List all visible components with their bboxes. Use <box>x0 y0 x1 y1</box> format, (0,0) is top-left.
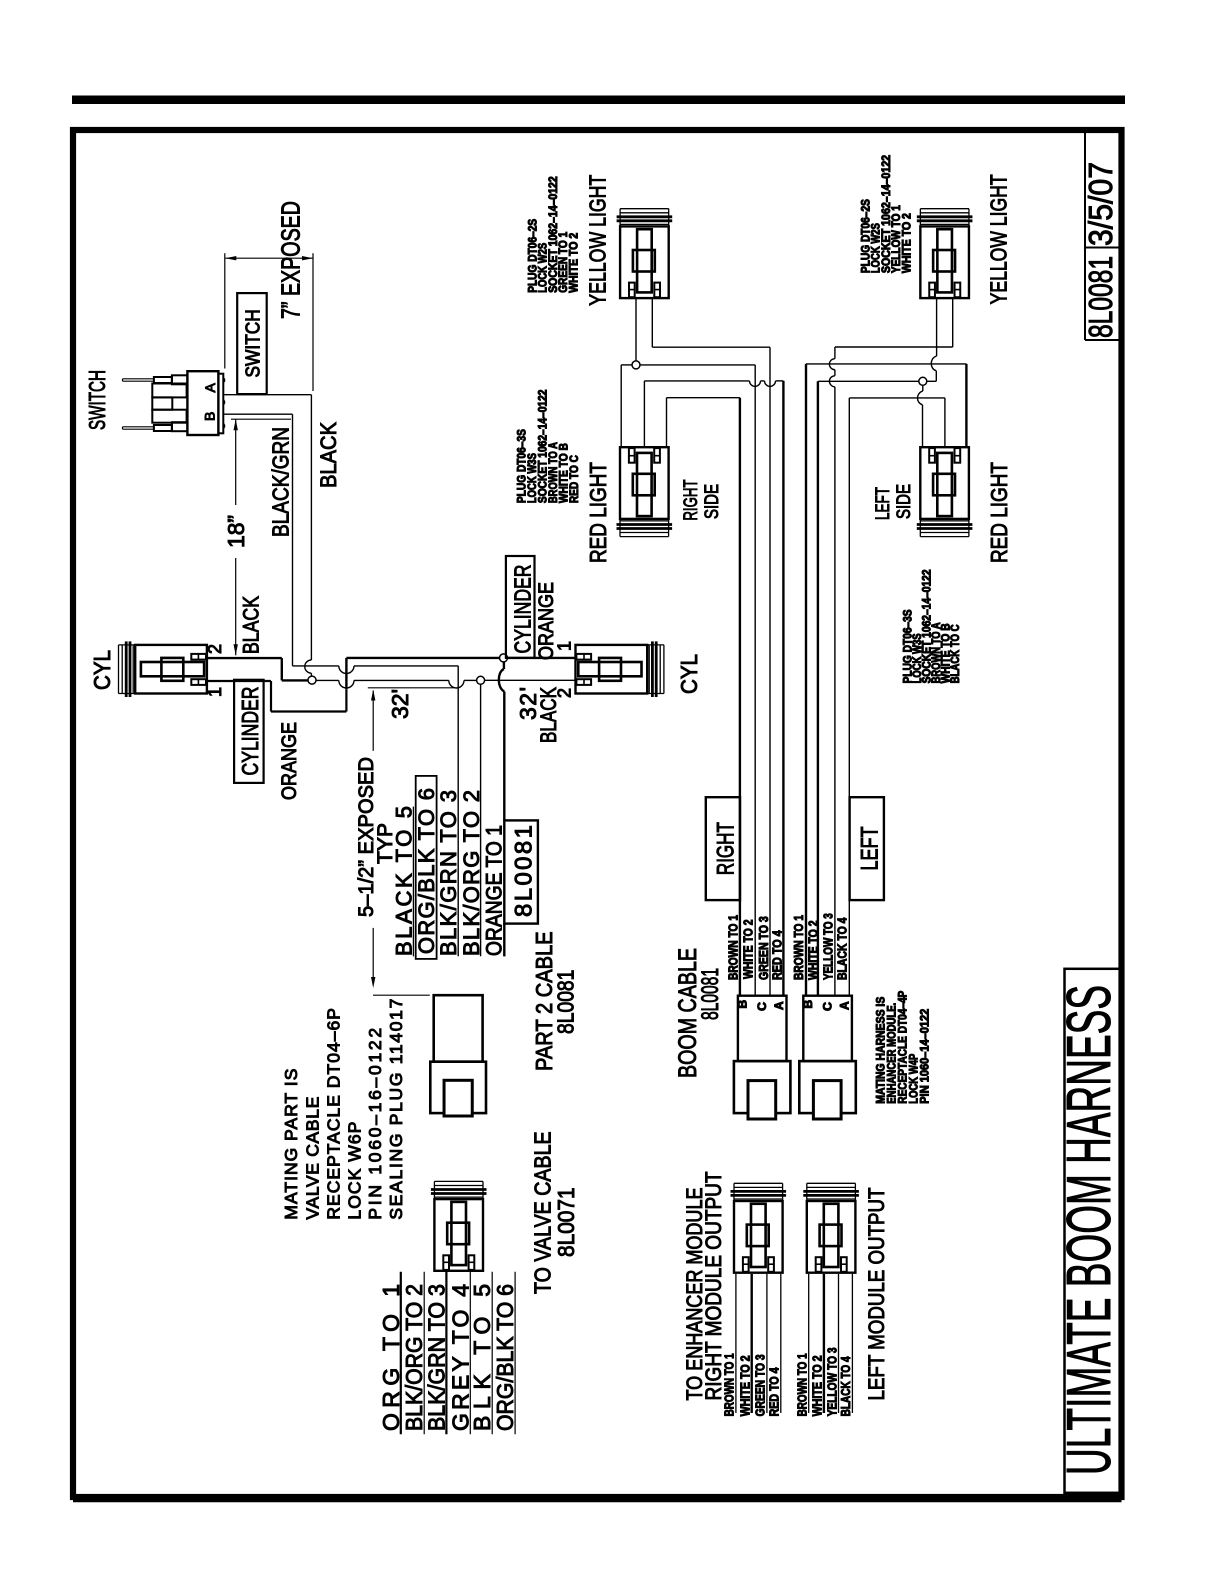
svg-text:7” EXPOSED: 7” EXPOSED <box>276 201 306 319</box>
wire yellow2 pin2 to bus <box>952 298 954 347</box>
svg-text:ORANGE: ORANGE <box>535 582 558 660</box>
cable orange thick vertical <box>345 658 347 689</box>
svg-text:YELLOW LIGHT: YELLOW LIGHT <box>585 175 611 306</box>
svg-text:LEFT: LEFT <box>857 826 884 870</box>
svg-text:RIGHT MODULE OUTPUT: RIGHT MODULE OUTPUT <box>701 1172 726 1401</box>
connector SWITCH 2-pin <box>187 371 218 435</box>
title bar ULTIMATE BOOM HARNESS box <box>1065 969 1121 1493</box>
svg-text:SEALING PLUG 114017: SEALING PLUG 114017 <box>386 999 406 1220</box>
svg-text:BLACK TO 4: BLACK TO 4 <box>839 1356 853 1416</box>
svg-text:SIDE: SIDE <box>702 484 723 519</box>
svg-text:BROWN TO 1: BROWN TO 1 <box>796 1353 810 1416</box>
svg-text:8L0071: 8L0071 <box>553 1187 579 1257</box>
cable orange thick horizontal to circle <box>346 657 499 659</box>
svg-text:RIGHT: RIGHT <box>713 822 740 875</box>
svg-text:A: A <box>202 383 218 393</box>
wire yellow1 pin2 to bus <box>651 298 653 347</box>
svg-text:8L0081: 8L0081 <box>1082 256 1119 338</box>
wire black hop loop into junction <box>305 660 312 673</box>
connector enhancer output right <box>734 1201 783 1273</box>
svg-text:CYL: CYL <box>89 650 115 690</box>
enhancer output wires right <box>735 1274 737 1413</box>
svg-text:RED TO 4: RED TO 4 <box>770 930 784 980</box>
svg-text:A: A <box>772 1001 786 1010</box>
junction circle blk/org bus <box>477 676 485 684</box>
label CYLINDER box 1 <box>234 680 264 783</box>
svg-text:BLACK: BLACK <box>536 687 561 743</box>
svg-text:RED TO 4: RED TO 4 <box>768 1367 782 1416</box>
svg-text:BLACK: BLACK <box>316 422 341 488</box>
connector RED LIGHT right-side DT06-3S <box>620 447 669 519</box>
svg-text:B: B <box>736 1000 750 1009</box>
svg-text:GREEN TO 3: GREEN TO 3 <box>754 1354 768 1416</box>
wire switch pin B black/grn <box>224 413 292 415</box>
svg-text:BLK/GRN TO 3: BLK/GRN TO 3 <box>436 790 461 956</box>
svg-text:RIGHT: RIGHT <box>681 479 702 520</box>
svg-text:BLACK TO C: BLACK TO C <box>950 624 962 683</box>
wire circle to bus brown <box>640 364 755 366</box>
wire circle left to bus <box>818 380 919 382</box>
svg-text:WHITE TO 2: WHITE TO 2 <box>806 920 820 980</box>
dimension 18 inch <box>235 419 237 505</box>
svg-text:A: A <box>837 1001 851 1010</box>
svg-text:BLACK TO 4: BLACK TO 4 <box>835 917 849 980</box>
svg-text:3/5/07: 3/5/07 <box>1082 162 1119 246</box>
box LEFT <box>850 797 884 900</box>
svg-text:ULTIMATE BOOM HARNESS: ULTIMATE BOOM HARNESS <box>1055 985 1124 1475</box>
svg-text:SWITCH: SWITCH <box>243 309 265 377</box>
svg-text:RED TO C: RED TO C <box>569 455 581 503</box>
connector YELLOW LIGHT right-side DT06-2S <box>620 226 669 298</box>
svg-text:8L0081: 8L0081 <box>553 970 579 1034</box>
svg-text:B: B <box>201 412 217 421</box>
connector YELLOW LIGHT left-side DT06-2S <box>920 226 969 298</box>
svg-text:BROWN TO 1: BROWN TO 1 <box>726 915 740 980</box>
svg-text:TO VALVE CABLE: TO VALVE CABLE <box>530 1131 556 1294</box>
wire circle down wiggle to red pin A <box>922 385 924 391</box>
svg-text:RECEPTACLE DT04–6P: RECEPTACLE DT04–6P <box>324 1008 344 1220</box>
svg-text:LOCK W6P: LOCK W6P <box>344 1122 364 1220</box>
svg-text:WHITE TO 2: WHITE TO 2 <box>811 1355 825 1416</box>
junction circle left group <box>919 377 927 385</box>
svg-text:BLK/ORG TO 2: BLK/ORG TO 2 <box>459 790 484 956</box>
svg-text:ORG/BLK TO 6: ORG/BLK TO 6 <box>492 1284 518 1431</box>
connector CYL right 2-pin <box>576 645 648 694</box>
title block cells <box>1084 131 1086 340</box>
wire cyl pin2 black thick <box>207 657 282 659</box>
svg-text:LEFT MODULE OUTPUT: LEFT MODULE OUTPUT <box>864 1188 889 1401</box>
svg-text:SWITCH: SWITCH <box>84 370 110 430</box>
box 8L0081 cable label <box>504 820 538 923</box>
bus orange to 1 thick with s-jog <box>503 662 505 669</box>
drawing frame <box>73 130 1122 1497</box>
wire2 blk/org run right <box>316 679 339 681</box>
svg-text:18”: 18” <box>223 515 249 548</box>
svg-text:SIDE: SIDE <box>894 484 915 519</box>
bus blk/org to 2 <box>480 684 482 956</box>
svg-text:YELLOW LIGHT: YELLOW LIGHT <box>986 174 1012 304</box>
svg-text:BROWN TO 1: BROWN TO 1 <box>792 915 806 980</box>
svg-text:PIN 1060–16–0122: PIN 1060–16–0122 <box>365 1028 385 1220</box>
bus with hops left group <box>834 347 836 359</box>
svg-text:YELLOW TO 3: YELLOW TO 3 <box>821 913 835 980</box>
svg-text:CYL: CYL <box>676 654 702 694</box>
label 32 feet first <box>368 687 454 689</box>
svg-text:WHITE TO 2: WHITE TO 2 <box>739 1355 753 1416</box>
svg-text:GREEN TO 3: GREEN TO 3 <box>757 916 771 980</box>
svg-text:PIN 1060–14–0122: PIN 1060–14–0122 <box>920 1009 932 1104</box>
connector CYL left 2-pin <box>135 645 207 694</box>
page border thick top rule <box>72 96 1125 105</box>
svg-text:YELLOW TO 3: YELLOW TO 3 <box>825 1347 839 1416</box>
svg-text:2: 2 <box>205 644 225 654</box>
svg-text:8L0081: 8L0081 <box>697 968 724 1020</box>
svg-text:RED LIGHT: RED LIGHT <box>585 462 611 563</box>
wire red1 pinB to bus <box>643 381 645 447</box>
svg-text:32': 32' <box>387 689 413 719</box>
wire yellow1 pin1 to junction circle <box>635 298 637 361</box>
svg-text:CYLINDER: CYLINDER <box>510 565 536 654</box>
wire red2 pinB bus <box>849 397 945 399</box>
svg-text:RED LIGHT: RED LIGHT <box>986 462 1012 563</box>
label SWITCH box <box>237 293 267 394</box>
svg-text:C: C <box>820 1002 834 1011</box>
connector enhancer output left <box>807 1201 856 1273</box>
connector RED LIGHT left-side DT06-3S <box>920 447 969 519</box>
label CYLINDER box 2 <box>506 556 535 658</box>
bus blk/grn to 3 <box>457 666 459 956</box>
junction circle black to blk/org <box>308 676 316 684</box>
wire red1 pinC to bus brown thick <box>666 398 668 448</box>
svg-text:B: B <box>801 1000 815 1009</box>
wire switch pin A black <box>224 394 311 396</box>
svg-text:VALVE CABLE: VALVE CABLE <box>303 1097 323 1220</box>
connector boom cable right DT04-4P <box>738 996 787 1061</box>
svg-text:WHITE TO 2: WHITE TO 2 <box>741 919 755 979</box>
wire red2 pinC bus <box>965 364 967 447</box>
connector TO VALVE CABLE plug <box>434 1199 483 1271</box>
svg-text:WHITE TO 2: WHITE TO 2 <box>902 213 914 273</box>
enhancer output wires left <box>808 1274 810 1413</box>
wire cyl pin1 orange jog <box>207 680 271 682</box>
svg-text:LEFT: LEFT <box>873 487 894 520</box>
svg-text:CYLINDER: CYLINDER <box>237 687 263 776</box>
svg-text:ORANGE TO 1: ORANGE TO 1 <box>482 825 507 956</box>
dimension 7 inch exposed <box>225 257 313 259</box>
valve cable wire lines <box>400 1272 402 1435</box>
connector receptacle DT04-6P symbol <box>434 995 483 1061</box>
box RIGHT <box>706 797 740 900</box>
junction circle right group <box>632 361 640 369</box>
svg-text:BLK/GRN TO 3: BLK/GRN TO 3 <box>423 1284 449 1431</box>
wire yellow2 pin1 wiggle to circle <box>936 298 938 356</box>
svg-text:WHITE TO 2: WHITE TO 2 <box>568 233 580 293</box>
svg-text:1: 1 <box>205 687 225 697</box>
svg-text:BLACK/GRN: BLACK/GRN <box>268 427 294 537</box>
svg-text:C: C <box>755 1002 769 1011</box>
label ORG/BLK TO 6 boxed <box>416 776 437 959</box>
svg-text:ORANGE: ORANGE <box>278 722 301 800</box>
svg-text:MATING PART IS: MATING PART IS <box>281 1069 301 1220</box>
svg-text:BLACK: BLACK <box>239 596 264 654</box>
wire1 blk/grn horizontal run <box>293 665 339 667</box>
junction circle orange <box>500 654 508 662</box>
connector boom cable left DT04-4P <box>803 996 852 1061</box>
